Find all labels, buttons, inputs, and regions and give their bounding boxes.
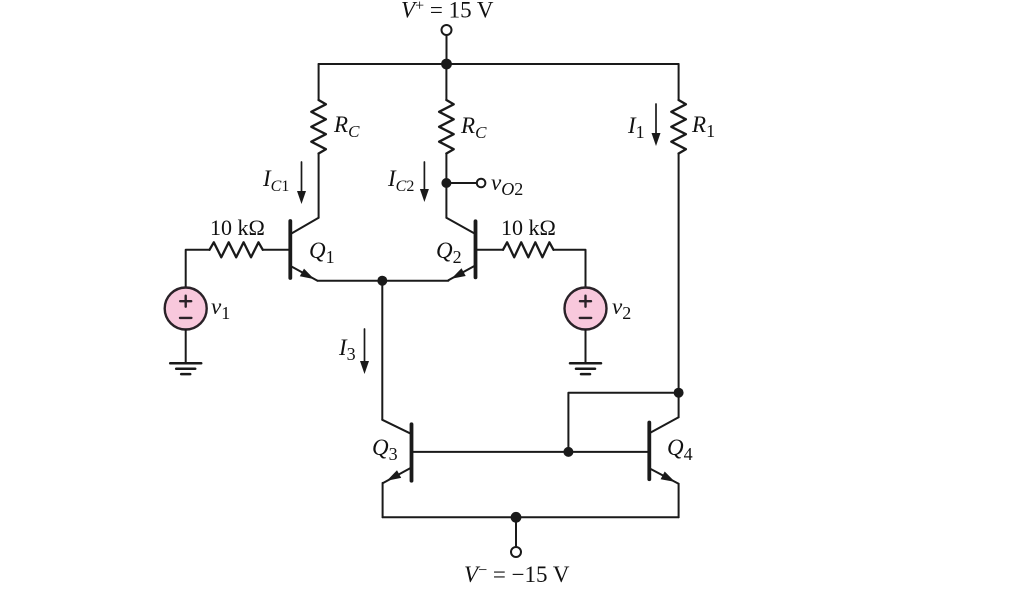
transistor Q1 — [288, 221, 292, 278]
wire top rail — [319, 63, 679, 65]
wire Q4 emitter down — [678, 484, 680, 518]
junction dot V+ rail — [441, 59, 452, 70]
svg-text:V+ = 15 V: V+ = 15 V — [401, 0, 494, 23]
svg-text:RC: RC — [333, 112, 360, 141]
svg-text:IC2: IC2 — [387, 166, 414, 195]
transistor Q4 — [647, 423, 651, 480]
wire Q2 base lead — [477, 249, 503, 251]
svg-text:Q2: Q2 — [436, 238, 462, 267]
wire Q1 emitter to tail node — [318, 280, 383, 282]
wire mirror link — [568, 393, 678, 452]
svg-text:10 kΩ: 10 kΩ — [501, 215, 556, 240]
resistor 10 kOhm (right) — [503, 242, 554, 257]
resistor RC (left) — [311, 100, 326, 154]
wire V- stub — [515, 517, 517, 547]
svg-text:Q4: Q4 — [667, 435, 693, 464]
wire bottom rail — [383, 516, 679, 518]
current arrow IC2 — [423, 162, 425, 194]
current arrow I1 — [655, 104, 657, 138]
wire mid collector feed — [445, 64, 447, 100]
wire v2 to ground — [585, 330, 587, 364]
wire vO2 stub — [446, 182, 476, 184]
svg-text:I3: I3 — [338, 335, 356, 364]
wire Q2 emitter to tail node — [382, 280, 448, 282]
junction dot tail node — [377, 276, 387, 286]
current arrow IC1 — [301, 162, 303, 196]
terminal V+ — [446, 36, 448, 65]
resistor R1 — [671, 100, 686, 154]
svg-text:v2: v2 — [612, 294, 631, 323]
current arrow I3 — [364, 329, 366, 366]
ground (v2) — [570, 362, 601, 365]
wire vO2 node to Q2 collector — [445, 183, 447, 218]
svg-text:RC: RC — [460, 113, 487, 142]
svg-text:10 kΩ: 10 kΩ — [210, 215, 265, 240]
wire v1 to resistor — [186, 250, 210, 288]
wire v1 to ground — [185, 330, 187, 364]
svg-text:V− = −15 V: V− = −15 V — [464, 562, 570, 587]
wire Q1 base lead — [263, 249, 289, 251]
svg-text:Q1: Q1 — [309, 238, 335, 267]
source v2 — [565, 288, 607, 330]
wire left collector feed — [318, 64, 320, 100]
resistor 10 kOhm (left) — [210, 242, 263, 257]
ground (v1) — [170, 362, 201, 365]
wire Q3 emitter down — [382, 483, 384, 517]
terminal V- — [511, 547, 521, 557]
svg-text:R1: R1 — [691, 112, 715, 141]
svg-text:I1: I1 — [627, 113, 645, 142]
terminal vO2 — [477, 179, 486, 188]
wire R1 down to Q4 collector — [678, 154, 680, 418]
resistor RC (middle) — [439, 100, 454, 154]
source v1 — [165, 288, 207, 330]
svg-text:IC1: IC1 — [262, 166, 289, 195]
svg-text:v1: v1 — [211, 294, 230, 323]
wire resistor to v2 — [554, 250, 586, 288]
wire tail down to Q3 — [381, 281, 383, 420]
transistor Q3 — [410, 424, 414, 480]
junction dot vO2 node — [441, 178, 451, 188]
wire RC to vO2 node — [445, 154, 447, 184]
svg-text:vO2: vO2 — [491, 170, 523, 199]
wire RC to Q1 collector — [318, 154, 320, 218]
junction dot base rail — [563, 447, 573, 457]
wire right feed — [678, 64, 680, 100]
svg-text:Q3: Q3 — [372, 435, 398, 464]
wire base rail Q3-Q4 — [413, 451, 647, 453]
junction dot V- stub — [511, 512, 522, 523]
transistor Q2 — [474, 221, 478, 277]
junction dot mirror link — [674, 388, 684, 398]
